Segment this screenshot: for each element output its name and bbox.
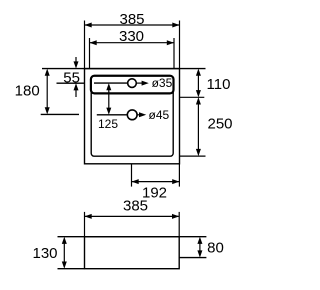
drain hole circle xyxy=(127,110,137,120)
dimension 125 xyxy=(106,83,111,115)
svg-text:180: 180 xyxy=(15,83,40,100)
top edge line with left and right extensions xyxy=(42,68,206,70)
dimension 130 xyxy=(62,237,67,269)
dimension 330 xyxy=(90,38,175,69)
dimension 55 (outside arrows) xyxy=(74,57,79,97)
svg-text:250: 250 xyxy=(207,115,232,132)
svg-text:125: 125 xyxy=(98,117,118,131)
faucet hole circle xyxy=(128,79,137,88)
side view bottom edge left extension xyxy=(58,268,85,270)
svg-text:385: 385 xyxy=(119,11,144,28)
centerline to drain hole (inner) xyxy=(97,114,127,116)
apron bottom extension line (right) xyxy=(179,257,206,259)
svg-text:330: 330 xyxy=(119,28,144,45)
dimension 110 and 250 (right side) xyxy=(179,69,205,157)
dimension 110 arrow line xyxy=(197,75,199,92)
dimension 80 xyxy=(197,237,202,258)
centerline to faucet hole (inner) xyxy=(94,82,128,84)
dimension 385 (top view) xyxy=(85,21,180,69)
leader arrow for drain hole xyxy=(137,112,146,117)
svg-text:55: 55 xyxy=(63,69,80,86)
dimension 180 xyxy=(45,69,50,115)
deck rounded rectangle (thick) xyxy=(91,76,174,94)
extension line at basin bottom level (right) xyxy=(180,155,206,157)
svg-text:ø45: ø45 xyxy=(149,108,170,122)
svg-text:110: 110 xyxy=(207,76,231,93)
dimension 192 (below top view) xyxy=(132,164,180,187)
leader arrow for faucet hole xyxy=(136,81,149,86)
svg-text:130: 130 xyxy=(32,245,57,262)
side view body rectangle (bottom view) xyxy=(58,237,207,269)
centerline at faucet level (outer left) xyxy=(57,82,85,84)
svg-text:385: 385 xyxy=(123,197,148,214)
inner basin rounded rectangle xyxy=(91,76,173,156)
extension line at basin deck level (right) xyxy=(179,96,204,98)
outer rim rectangle (top view) xyxy=(85,69,180,164)
extension line at drain level (outer left) xyxy=(41,113,79,115)
svg-text:80: 80 xyxy=(207,239,224,256)
dimension 250 arrow line xyxy=(197,103,199,150)
side view top edge extensions xyxy=(58,236,207,238)
dimension 385 (bottom view) xyxy=(85,212,180,237)
svg-text:ø35: ø35 xyxy=(152,76,173,90)
